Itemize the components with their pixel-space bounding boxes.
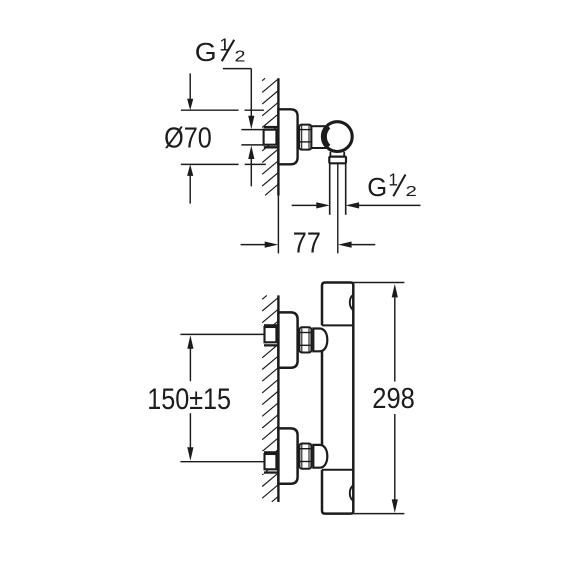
svg-text:150±15: 150±15: [147, 382, 231, 416]
svg-text:Ø70: Ø70: [164, 121, 212, 154]
svg-text:298: 298: [372, 382, 415, 415]
svg-text:G: G: [367, 174, 387, 202]
svg-text:1: 1: [388, 170, 398, 190]
svg-text:G: G: [195, 38, 217, 67]
svg-text:2: 2: [235, 47, 246, 65]
svg-text:2: 2: [406, 183, 417, 200]
svg-text:77: 77: [293, 226, 321, 259]
